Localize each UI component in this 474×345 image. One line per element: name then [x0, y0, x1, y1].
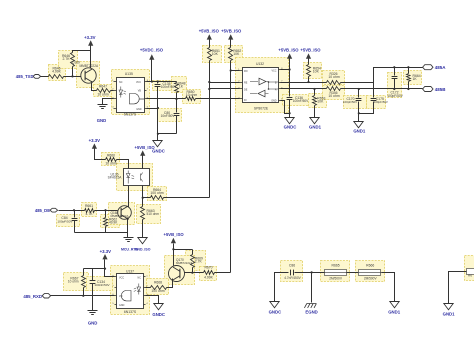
- optocoupler U136: [124, 169, 150, 186]
- highlight box Q169: [77, 62, 100, 88]
- highlight box R645: [49, 65, 66, 81]
- wire R654 to B line: [308, 77, 310, 83]
- port 485_DE middle: [50, 208, 58, 212]
- svg-text:100nF/50V: 100nF/50V: [293, 99, 309, 103]
- resistor R662: [105, 211, 107, 218]
- svg-text:MMBT2222A: MMBT2222A: [80, 64, 99, 68]
- svg-text:R6: R6: [468, 274, 472, 278]
- resistor R663: [142, 198, 144, 207]
- capacitor C80: [176, 99, 178, 113]
- highlight box R346: [323, 86, 345, 100]
- wire R665 to R666: [347, 272, 359, 274]
- wire U132 pin1: [231, 70, 240, 72]
- svg-text:DI: DI: [244, 99, 247, 102]
- svg-text:NC: NC: [138, 276, 142, 279]
- svg-text:VCC: VCC: [136, 81, 141, 84]
- wire C86 left leg: [275, 273, 289, 302]
- resistor R666 box: [359, 270, 381, 276]
- resistor R653: [314, 89, 316, 96]
- svg-text:+5VB_ISO: +5VB_ISO: [164, 232, 185, 237]
- svg-text:GNDC: GNDC: [152, 312, 165, 317]
- wire R670 to rail2: [215, 272, 231, 274]
- svg-text:MCU_RTN: MCU_RTN: [121, 248, 139, 252]
- highlight box R667: [64, 273, 89, 291]
- resistor R667: [83, 269, 85, 276]
- optocoupler U135: [117, 78, 145, 113]
- svg-text:U135: U135: [125, 72, 133, 76]
- wire U137 cathode to ground: [146, 296, 159, 304]
- highlight box R665: [321, 261, 350, 282]
- wire U132 VCC to +5VB_ISO: [281, 69, 290, 71]
- wire power arrow shaft: [90, 46, 92, 51]
- svg-text:+5VB_ISO: +5VB_ISO: [199, 29, 220, 34]
- wire Q170 base row to R670: [185, 272, 204, 274]
- wire B line to port row: [341, 68, 423, 83]
- svg-text:GNDC: GNDC: [269, 310, 282, 315]
- highlight box R662: [101, 215, 120, 228]
- svg-text:100nF/50V: 100nF/50V: [94, 283, 110, 287]
- capacitor C170: [358, 89, 360, 98]
- resistor R346: [327, 87, 341, 91]
- svg-text:DE: DE: [244, 89, 248, 92]
- resistor R660: [106, 158, 117, 162]
- rail2 vertical R652 down: [230, 61, 232, 273]
- svg-text:100 ohm: 100 ohm: [151, 289, 164, 293]
- power arrow at R654: [306, 53, 311, 58]
- wire R646 top rail to collector: [73, 51, 91, 53]
- highlight box U136: [117, 164, 153, 191]
- highlight box R664r: [404, 71, 422, 85]
- wire B line: [281, 82, 327, 84]
- svg-text:2M/500V: 2M/500V: [364, 276, 378, 280]
- highlight box R326: [323, 71, 345, 85]
- svg-text:10 ohm: 10 ohm: [186, 93, 197, 97]
- svg-text:R668: R668: [154, 281, 162, 285]
- svg-text:485_DE: 485_DE: [35, 208, 50, 213]
- resistor R667B right edge: [467, 269, 474, 275]
- wire C86 to R665: [295, 272, 325, 274]
- transceiver U132: [243, 68, 279, 103]
- transistor Q169: [81, 68, 96, 83]
- power arrow R651: [207, 34, 212, 39]
- highlight box R654: [304, 63, 322, 79]
- highlight box C86: [281, 261, 303, 282]
- wire port to R661: [59, 210, 85, 212]
- highlight box R668: [147, 279, 169, 295]
- svg-text:49.9K: 49.9K: [109, 221, 118, 225]
- highlight box R663: [137, 205, 161, 224]
- svg-text:EGND: EGND: [305, 310, 317, 315]
- ground GND1 triangle below C170 C175: [358, 114, 360, 122]
- svg-text:+5VB_ISO: +5VB_ISO: [221, 29, 242, 34]
- svg-text:10 ohm: 10 ohm: [97, 92, 108, 96]
- ground GNDC triangle below C136: [289, 114, 291, 118]
- svg-text:100pF/50V: 100pF/50V: [374, 100, 388, 104]
- capacitor C175: [373, 83, 375, 98]
- port 485_RXD bottom: [42, 294, 50, 298]
- svg-text:RO: RO: [244, 70, 248, 73]
- resistor R646: [71, 53, 75, 67]
- svg-text:2.7K: 2.7K: [63, 57, 71, 61]
- highlight box C80: [158, 109, 182, 122]
- highlight box R664m: [148, 187, 167, 201]
- rail1 vertical R651 down: [209, 61, 211, 198]
- ground GND1 triangle far right: [444, 304, 453, 310]
- wire 3.3V rail left: [84, 268, 105, 270]
- node base Q169: [71, 75, 73, 77]
- wire U132 pin2: [210, 82, 240, 84]
- svg-text:485A: 485A: [435, 65, 447, 70]
- svg-text:GND: GND: [97, 118, 107, 123]
- capacitor C172: [394, 68, 396, 76]
- port 485A: [423, 65, 433, 70]
- port 485B: [423, 87, 433, 92]
- ground GND1 triangle below R653: [314, 106, 316, 118]
- svg-text:SFH615A: SFH615A: [108, 176, 123, 180]
- highlight box R669: [186, 251, 206, 271]
- port 485_TXD: [33, 75, 41, 79]
- wire R660 to U136 anode: [117, 160, 129, 169]
- ground GNDB triangle below U137: [154, 304, 163, 310]
- svg-text:100nF/50V: 100nF/50V: [161, 85, 177, 89]
- wire U132 GND pin to C136 bottom: [281, 101, 290, 114]
- svg-text:GND1: GND1: [309, 125, 322, 130]
- svg-text:4.99K: 4.99K: [52, 69, 62, 73]
- power arrow R652: [228, 34, 233, 39]
- svg-text:10K: 10K: [233, 52, 240, 56]
- svg-text:4.99K: 4.99K: [204, 275, 214, 279]
- wire R647 to U135 pin 2: [111, 90, 114, 92]
- highlight box C175: [367, 96, 386, 109]
- wire U135 GND pin to rail: [147, 108, 158, 110]
- highlight box R653: [309, 94, 327, 108]
- wire collector node: [174, 249, 193, 251]
- svg-text:+5VB_ISO: +5VB_ISO: [278, 47, 299, 52]
- svg-text:4.7K: 4.7K: [86, 212, 94, 216]
- optocoupler U137: [117, 274, 144, 309]
- svg-text:GND1: GND1: [443, 312, 456, 317]
- transistor Q170: [169, 266, 185, 282]
- highlight box U135: [112, 70, 150, 115]
- resistor R652: [229, 48, 233, 61]
- wire Q169 emitter to R647: [92, 83, 97, 91]
- capacitor C86: [291, 270, 294, 276]
- highlight box R661: [82, 203, 97, 217]
- wire Q168 emitter down: [127, 218, 129, 233]
- resistor R664 right: [408, 68, 410, 74]
- wire to chassis ground: [311, 273, 313, 303]
- highlight box C135: [153, 81, 181, 91]
- svg-text:6N137S: 6N137S: [124, 112, 137, 116]
- svg-text:R660: R660: [107, 154, 115, 158]
- wire collector Q169: [90, 51, 92, 69]
- svg-text:485B: 485B: [435, 87, 447, 92]
- ground triangle below R663: [142, 220, 144, 238]
- svg-text:510 ohm: 510 ohm: [147, 212, 160, 216]
- svg-text:GND: GND: [136, 108, 142, 111]
- resistor R664 middle: [143, 197, 151, 199]
- wire U135 pin3 to ground: [103, 99, 114, 105]
- highlight box Q168: [109, 203, 135, 225]
- svg-text:100 ohm: 100 ohm: [150, 191, 163, 195]
- svg-text:+5VDC_ISO: +5VDC_ISO: [140, 48, 164, 53]
- svg-text:U132: U132: [256, 62, 264, 66]
- svg-text:10K: 10K: [212, 52, 219, 56]
- svg-text:+3.3V: +3.3V: [100, 249, 111, 254]
- ground GND bar below C134: [88, 311, 98, 315]
- svg-text:100pF/50V: 100pF/50V: [343, 100, 357, 104]
- svg-text:NC: NC: [119, 81, 123, 84]
- svg-text:VCC: VCC: [119, 276, 124, 279]
- svg-text:1K: 1K: [179, 85, 184, 89]
- svg-text:4.7nF/450V: 4.7nF/450V: [284, 276, 301, 280]
- highlight box U132: [236, 58, 289, 113]
- ground MCU_RTN bar: [127, 233, 129, 238]
- ground GND bar below U135: [98, 105, 108, 109]
- wire U135 VCC to rail: [147, 81, 177, 83]
- highlight box R646: [59, 51, 78, 69]
- wire U132 pin3: [210, 88, 240, 90]
- svg-text:10K: 10K: [313, 70, 320, 74]
- highlight box Q170: [165, 256, 195, 285]
- wire R668 to U137 anode: [146, 287, 151, 289]
- svg-text:RE: RE: [244, 82, 248, 85]
- highlight box R647: [94, 85, 113, 97]
- highlight box C136: [283, 95, 311, 106]
- resistor R650: [186, 97, 196, 101]
- transistor Q168: [118, 206, 132, 220]
- highlight box R660: [102, 153, 120, 166]
- svg-text:R647: R647: [99, 85, 107, 89]
- capacitor C134: [92, 269, 94, 281]
- svg-text:R665: R665: [332, 263, 340, 267]
- resistor R326: [327, 81, 341, 85]
- svg-text:VCC: VCC: [271, 70, 276, 73]
- capacitor C84: [74, 211, 76, 218]
- highlight box R651: [203, 46, 222, 63]
- highlight box R666: [356, 261, 385, 282]
- resistor R651: [208, 48, 212, 61]
- ground GNDC triangle below C86: [270, 302, 279, 308]
- resistor R669: [192, 250, 194, 255]
- chassis ground EGND: [304, 304, 316, 308]
- svg-text:10 ohm: 10 ohm: [105, 162, 116, 166]
- resistor R668: [151, 286, 167, 290]
- svg-text:+5VB_ISO: +5VB_ISO: [300, 47, 321, 52]
- svg-text:485_TXD: 485_TXD: [16, 74, 34, 79]
- wire R666 to ground leg: [382, 273, 395, 302]
- wire Q170 emitter to R668: [167, 279, 173, 288]
- highlight box R650: [183, 90, 201, 104]
- svg-text:10K: 10K: [317, 100, 324, 104]
- svg-text:GND: GND: [88, 320, 98, 325]
- svg-text:10 ohm: 10 ohm: [328, 94, 339, 98]
- svg-text:VO: VO: [119, 295, 123, 298]
- highlight box C84: [57, 215, 80, 227]
- svg-text:GND1: GND1: [353, 129, 366, 134]
- resistor R648: [176, 82, 178, 83]
- resistor R654: [307, 65, 311, 77]
- highlight box R: [465, 256, 474, 281]
- svg-text:100pF/50V: 100pF/50V: [57, 219, 73, 223]
- highlight box R670: [200, 267, 217, 281]
- ground GNDC triangle top area: [153, 141, 162, 147]
- resistor R647: [97, 89, 111, 93]
- svg-text:GND1: GND1: [388, 310, 401, 315]
- highlight box C172: [388, 73, 402, 98]
- svg-text:MMBT2222A: MMBT2222A: [111, 214, 130, 218]
- ground GND1 triangle right of chain: [390, 302, 399, 308]
- wire port to U137: [51, 295, 115, 297]
- wire port to R645: [41, 76, 49, 78]
- svg-text:R670: R670: [204, 266, 212, 270]
- svg-text:VB: VB: [138, 90, 142, 93]
- svg-text:485_RXD: 485_RXD: [23, 294, 42, 299]
- wire iso ground rail: [158, 133, 177, 135]
- wire A line: [281, 88, 327, 90]
- capacitor C135: [157, 82, 159, 84]
- highlight box C170: [344, 96, 367, 109]
- wire VO row U135 pin6 to U132 pin4: [147, 98, 186, 100]
- svg-text:GND: GND: [119, 304, 125, 307]
- resistor R645: [49, 75, 64, 79]
- resistor R661: [85, 209, 95, 213]
- svg-text:SP8072E: SP8072E: [254, 107, 269, 111]
- svg-text:+3.3V: +3.3V: [89, 138, 100, 143]
- wire right edge component to ground: [449, 272, 467, 304]
- svg-text:10 ohm: 10 ohm: [328, 75, 339, 79]
- highlight box U137: [111, 266, 150, 315]
- svg-text:R666: R666: [366, 263, 374, 267]
- resistor R670: [204, 271, 215, 275]
- svg-text:MMBT2222A: MMBT2222A: [176, 261, 192, 265]
- svg-text:GNDC: GNDC: [284, 125, 297, 130]
- highlight box R648: [172, 77, 187, 93]
- svg-text:+3.3V: +3.3V: [84, 35, 95, 40]
- wire U136 emitter down: [142, 186, 144, 198]
- svg-text:10nF/50V: 10nF/50V: [161, 114, 176, 118]
- wire R661 to Q168 base: [95, 210, 118, 212]
- svg-text:1K: 1K: [413, 77, 418, 81]
- svg-text:U137: U137: [126, 269, 134, 273]
- wire rail to GNDC triangle: [157, 134, 159, 141]
- svg-text:10 ohm: 10 ohm: [68, 280, 79, 284]
- wire base node up to R646: [72, 67, 74, 77]
- wire middle ground rail: [75, 232, 128, 234]
- svg-text:GND: GND: [271, 100, 277, 103]
- wire A line to port B: [341, 88, 423, 90]
- svg-text:R661: R661: [85, 204, 93, 208]
- svg-text:100pF/50V: 100pF/50V: [387, 94, 403, 98]
- wire U136 cathode to Q168 collector: [128, 186, 130, 208]
- capacitor C136: [289, 70, 291, 97]
- svg-text:2.7K: 2.7K: [195, 260, 203, 264]
- svg-text:2M/500V: 2M/500V: [329, 276, 343, 280]
- wire R664 to rail1: [164, 197, 210, 199]
- svg-text:+5VB_ISO: +5VB_ISO: [135, 145, 156, 150]
- wire R645 to Q169 base: [64, 76, 81, 78]
- resistor R665 box: [325, 270, 347, 276]
- svg-text:C86: C86: [289, 264, 295, 268]
- highlight box C134: [87, 277, 113, 291]
- highlight box R652: [225, 46, 243, 63]
- svg-text:6N137S: 6N137S: [124, 310, 137, 314]
- power arrow at C136: [287, 53, 292, 58]
